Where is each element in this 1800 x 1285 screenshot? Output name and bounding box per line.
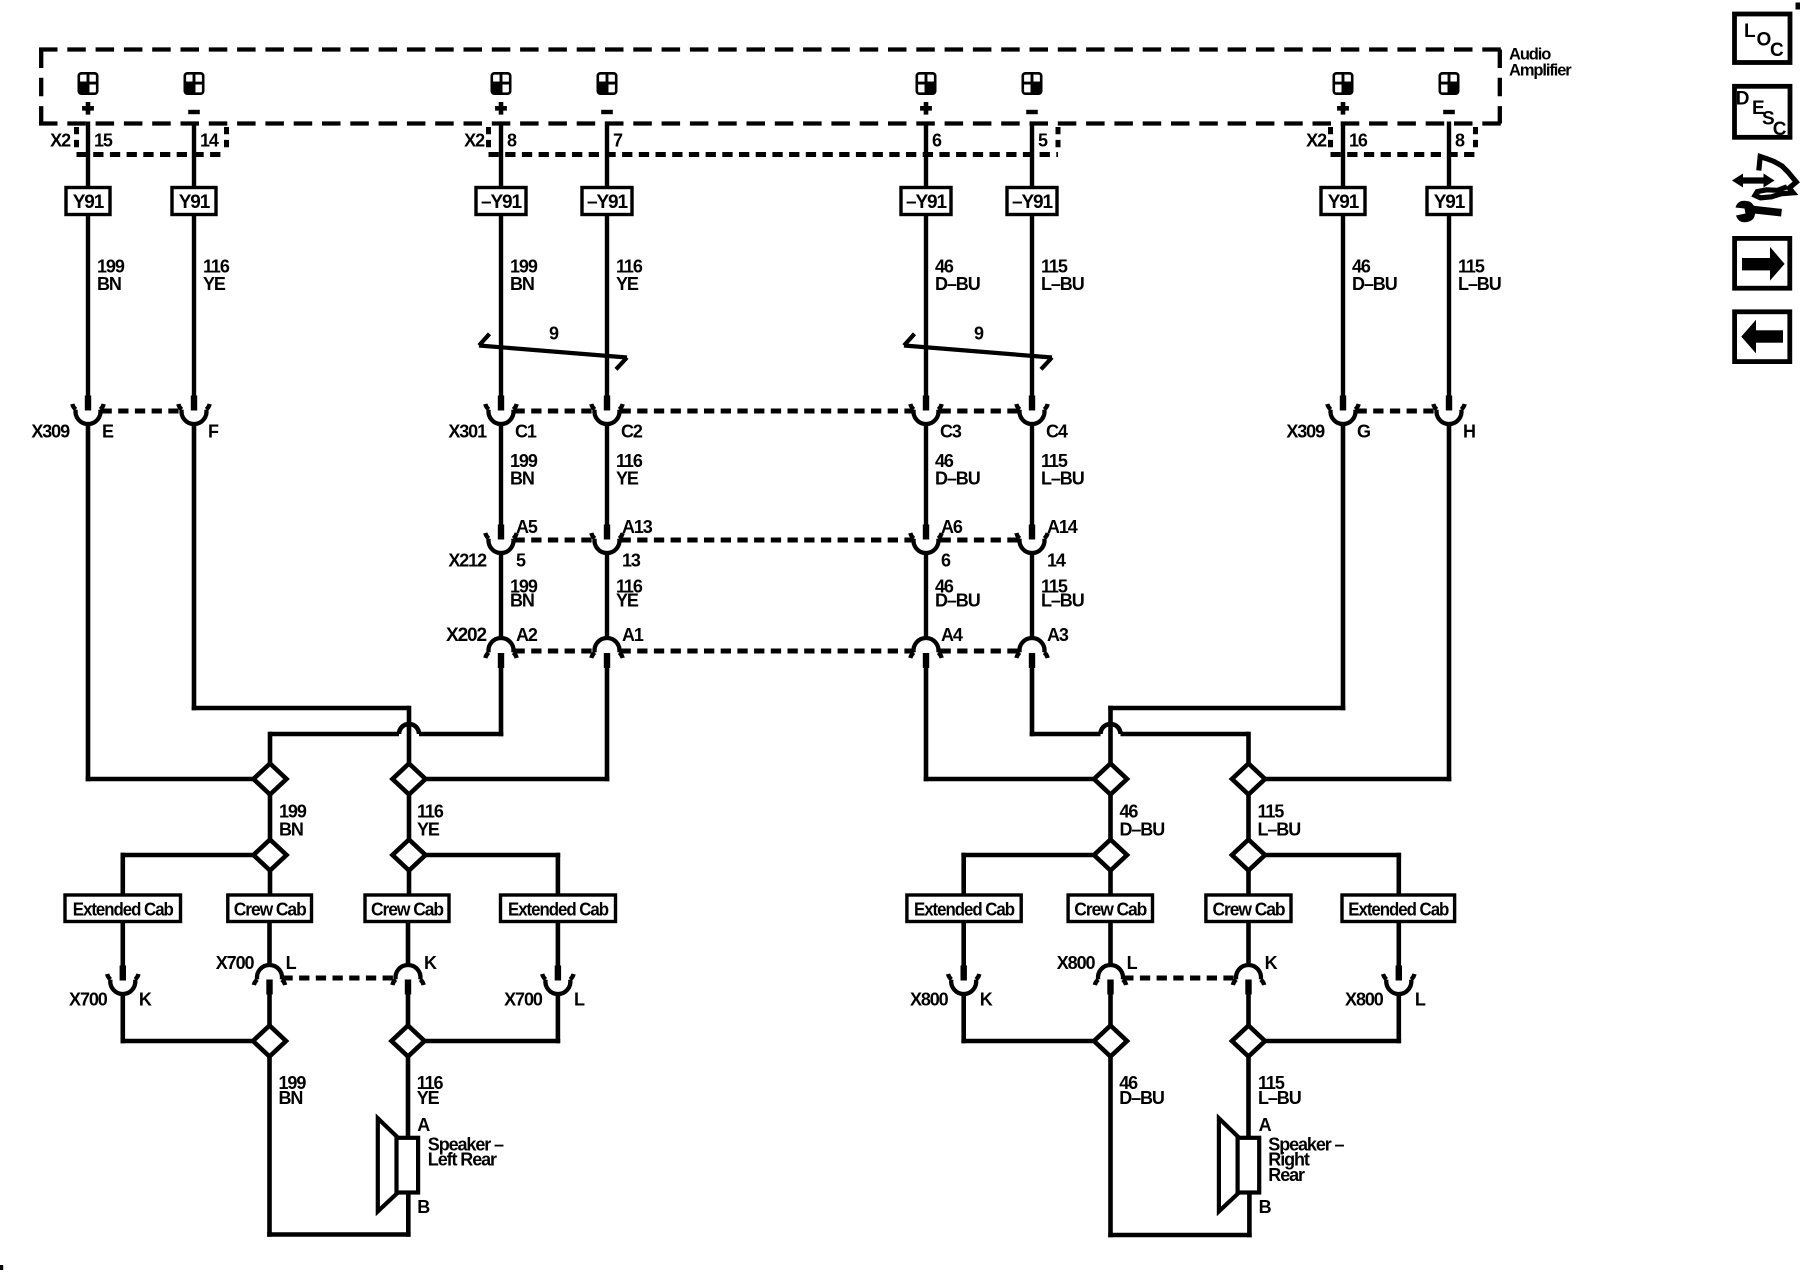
svg-text:46: 46 (1120, 802, 1139, 822)
svg-text:C4: C4 (1046, 422, 1068, 442)
icon double arrow with wrench (1732, 157, 1796, 223)
connector X800 K mid (1233, 965, 1264, 994)
connector X212 dashes (515, 538, 1019, 543)
svg-text:A1: A1 (622, 625, 644, 645)
connector X800 L right (1383, 966, 1414, 994)
label Speaker - Right Rear (1268, 1135, 1344, 1186)
svg-text:L–BU: L–BU (1258, 1088, 1301, 1108)
wire col3 amp to splice pack (499, 122, 503, 190)
wire label 46 D–BU col7 (1352, 257, 1397, 295)
label X800 L mid (1057, 953, 1138, 973)
connector X2 pin box (pins 15,14) (77, 127, 227, 155)
wire label 46 D–BU col5 (935, 257, 980, 295)
svg-text:C: C (1770, 40, 1784, 61)
svg-text:B: B (1259, 1197, 1272, 1217)
svg-text:14: 14 (1047, 551, 1066, 571)
svg-text:Extended Cab: Extended Cab (73, 899, 174, 919)
svg-text:116: 116 (417, 802, 444, 822)
wire S3 to Crew Cab L1 (268, 871, 273, 897)
label Speaker - Left Rear (428, 1135, 504, 1170)
crossover hop left (399, 724, 419, 734)
splice pack Y91 col2 (172, 188, 216, 215)
wire X800 K mid to splice S12 (1246, 994, 1251, 1028)
svg-text:X2: X2 (50, 131, 71, 151)
svg-text:BN: BN (510, 274, 534, 294)
splice S7 (46 D-BU) (1094, 764, 1127, 795)
connector X301 dashes (515, 409, 1019, 414)
wire G run (1108, 423, 1345, 765)
icon box LOC (1735, 14, 1791, 63)
svg-text:Crew Cab: Crew Cab (234, 899, 307, 919)
connector X700 K left (107, 966, 138, 994)
wire label 115 L–BU col6 (1041, 257, 1084, 295)
connector pin A1 X202 (591, 638, 622, 668)
svg-text:L–BU: L–BU (1041, 469, 1084, 489)
wire S12 to speaker A (1246, 1057, 1251, 1139)
svg-text:YE: YE (417, 1088, 440, 1108)
svg-text:K: K (424, 953, 437, 973)
wire label 116 YE col2 (203, 257, 230, 295)
svg-text:9: 9 (549, 324, 559, 344)
svg-text:Y91: Y91 (73, 192, 105, 213)
svg-text:YE: YE (203, 274, 226, 294)
connector pin 6 X212 (910, 525, 941, 553)
svg-text:5: 5 (516, 551, 526, 571)
svg-text:D: D (1736, 89, 1749, 110)
svg-text:K: K (1265, 953, 1278, 973)
svg-text:D–BU: D–BU (1119, 1088, 1164, 1108)
svg-text:YE: YE (616, 469, 639, 489)
speaker Right Rear (1219, 1118, 1239, 1211)
svg-text:–Y91: –Y91 (1012, 192, 1054, 213)
svg-text:X202: X202 (446, 625, 487, 646)
box Crew Cab L2 (365, 895, 449, 922)
svg-text:A3: A3 (1047, 625, 1069, 645)
svg-text:H: H (1463, 422, 1475, 442)
crossover hop right (1101, 724, 1121, 734)
box Extended Cab R2 (1342, 895, 1455, 922)
twisted pair marker 9 (left) (479, 334, 627, 370)
wire S4 to Extended Cab L2 (425, 853, 561, 897)
connector pin G row1 (1327, 396, 1358, 424)
wire col8 below splice pack (1447, 215, 1451, 398)
svg-text:D–BU: D–BU (935, 469, 980, 489)
svg-text:Y91: Y91 (179, 192, 211, 213)
svg-text:X700: X700 (504, 990, 543, 1010)
svg-text:X2: X2 (1306, 131, 1327, 151)
wire C1 to X212 (499, 423, 503, 526)
svg-text:6: 6 (941, 551, 951, 571)
svg-text:D–BU: D–BU (935, 274, 980, 294)
svg-text:–Y91: –Y91 (587, 192, 629, 213)
connector X309 left dashes (102, 409, 181, 414)
svg-text:Y91: Y91 (1328, 192, 1360, 213)
svg-text:Left Rear: Left Rear (428, 1150, 497, 1170)
wire X212 to X202 col3 (499, 552, 503, 640)
speaker Left Rear (378, 1118, 398, 1211)
wire Extended Cab L1 down (121, 922, 126, 967)
splice S4 (393, 840, 426, 871)
connector X800 L mid (1095, 965, 1126, 994)
svg-text:Extended Cab: Extended Cab (508, 899, 609, 919)
wire Crew Cab R2 down (1246, 922, 1251, 968)
polarity sign + col1 (82, 102, 94, 115)
wire col7 amp to splice pack (1341, 122, 1345, 190)
svg-text:8: 8 (1455, 131, 1465, 151)
wire col1 below splice pack (86, 215, 90, 398)
wire X212 to X202 col4 (605, 552, 609, 640)
svg-text:A5: A5 (516, 517, 538, 537)
wire X700 L mid to splice S5 (267, 994, 272, 1028)
wire label 116 YE mid1 col4 (616, 451, 643, 489)
icon box arrow right (1735, 238, 1790, 288)
svg-text:X309: X309 (1286, 422, 1325, 442)
connector pin E row1 (72, 396, 103, 424)
connector X700 K mid (392, 965, 423, 994)
svg-text:L: L (1744, 21, 1756, 42)
polarity sign - col6 (1026, 110, 1038, 114)
svg-text:13: 13 (622, 551, 641, 571)
svg-text:5: 5 (1038, 131, 1048, 151)
svg-text:7: 7 (613, 131, 623, 151)
wire S11 to speaker B (1108, 1057, 1252, 1238)
svg-text:C2: C2 (621, 422, 643, 442)
svg-text:Extended Cab: Extended Cab (1348, 899, 1449, 919)
connector pin 5 X212 (485, 525, 516, 553)
connector pin C1 row1 (485, 396, 516, 424)
svg-text:Y91: Y91 (1434, 192, 1466, 213)
wire label 46 D–BU mid1 col5 (935, 451, 980, 489)
svg-text:BN: BN (510, 591, 534, 611)
svg-text:Crew Cab: Crew Cab (1074, 899, 1147, 919)
wire X700 K mid to splice S6 (406, 994, 411, 1028)
polarity sign - col4 (601, 110, 613, 114)
svg-text:–Y91: –Y91 (481, 192, 523, 213)
svg-text:F: F (208, 422, 219, 442)
splice pack Y91 col1 (66, 188, 110, 215)
svg-text:D–BU: D–BU (935, 591, 980, 611)
svg-text:199: 199 (279, 802, 307, 822)
wire col5 amp to splice pack (924, 122, 928, 190)
svg-text:A13: A13 (622, 517, 653, 537)
wire C3 to X212 (924, 423, 928, 526)
polarity sign + col5 (920, 102, 932, 115)
splice S10 (1232, 840, 1265, 871)
label X800 L right (1345, 990, 1426, 1010)
splice pack –Y91 col3 (476, 188, 526, 215)
wire A3 run (1030, 666, 1249, 765)
svg-text:K: K (980, 990, 993, 1010)
svg-text:X2: X2 (464, 131, 485, 151)
svg-text:L: L (574, 990, 585, 1010)
svg-text:9: 9 (974, 324, 984, 344)
splice S3 (254, 840, 287, 871)
svg-text:16: 16 (1349, 131, 1368, 151)
svg-text:L: L (1127, 953, 1138, 973)
amp output pin symbol col1 (78, 73, 98, 95)
polarity sign + col7 (1337, 102, 1349, 115)
splice S6 (392, 1026, 425, 1057)
box Extended Cab L1 (65, 895, 181, 922)
Audio Amplifier dashed outline box (39, 50, 1502, 124)
box Crew Cab L1 (228, 895, 312, 922)
connector pin C2 row1 (591, 396, 622, 424)
wire C2 to X212 (605, 423, 609, 526)
svg-text:X301: X301 (448, 422, 487, 442)
connector pin A3 X202 (1016, 638, 1047, 668)
wire label 199 BN col1 (97, 257, 125, 295)
wire col4 below splice pack (605, 215, 609, 398)
splice pack –Y91 col6 (1007, 188, 1057, 215)
wire F run (192, 423, 409, 765)
connector X800 dashes (1123, 976, 1236, 981)
connector X700 L mid (254, 965, 285, 994)
wire label 116 YE speaker left (417, 1073, 444, 1108)
svg-text:A2: A2 (516, 625, 538, 645)
svg-text:A14: A14 (1047, 517, 1078, 537)
svg-text:X212: X212 (448, 551, 487, 571)
connector X309 right dashes (1357, 409, 1436, 414)
wire label 46 D-BU speaker right (1119, 1073, 1164, 1108)
wire label 199 BN trunk left (279, 802, 307, 840)
box Extended Cab R1 (907, 895, 1021, 922)
icon box arrow left (1735, 312, 1790, 362)
wire col1 amp to splice pack (86, 122, 90, 190)
svg-text:A6: A6 (941, 517, 963, 537)
wire col4 amp to splice pack (605, 122, 609, 190)
wire X800 L right to splice S12 (1264, 993, 1401, 1043)
box Crew Cab R2 (1206, 895, 1291, 922)
wire label 116 YE trunk left (417, 802, 444, 840)
splice pack Y91 col7 (1321, 188, 1365, 215)
svg-text:O: O (1757, 30, 1771, 51)
svg-text:Rear: Rear (1268, 1165, 1305, 1185)
svg-text:14: 14 (200, 131, 219, 151)
label X700 L right (504, 990, 585, 1010)
wire H run (1265, 423, 1451, 781)
svg-text:C3: C3 (940, 422, 962, 442)
wire Extended Cab R1 down (961, 922, 966, 967)
wire col5 below splice pack (924, 215, 928, 398)
amp output pin symbol col4 (597, 73, 617, 95)
polarity sign - col8 (1443, 110, 1455, 114)
svg-text:Crew Cab: Crew Cab (1213, 899, 1286, 919)
connector pin A2 X202 (485, 638, 516, 668)
wire col2 amp to splice pack (192, 122, 196, 190)
wire label 116 YE col4 (616, 257, 643, 295)
wire col7 below splice pack (1341, 215, 1345, 398)
twisted pair marker 9 (right) (904, 334, 1052, 370)
label Audio Amplifier (1509, 46, 1572, 80)
wire A4 run (924, 666, 1096, 781)
svg-text:BN: BN (279, 820, 303, 840)
connector pin C3 row1 (910, 396, 941, 424)
connector pin F row1 (178, 396, 209, 424)
wire Crew Cab L1 down (267, 922, 272, 968)
svg-text:L: L (286, 953, 297, 973)
splice pack –Y91 col4 (582, 188, 632, 215)
svg-text:Crew Cab: Crew Cab (371, 899, 444, 919)
wire col6 amp to splice pack (1030, 122, 1034, 190)
wire S9 to Extended Cab R1 (961, 853, 1094, 897)
wire X212 to X202 col5 (924, 552, 928, 640)
svg-text:115: 115 (1258, 802, 1285, 822)
svg-text:BN: BN (510, 469, 534, 489)
wire label 199 BN speaker left (279, 1073, 307, 1108)
wire Crew Cab R1 down (1108, 922, 1113, 968)
connector X2 pin box (pins 16,8) (1331, 127, 1476, 155)
wire label 199 BN mid2 col3 (510, 577, 538, 611)
svg-text:X800: X800 (1057, 953, 1096, 973)
wire label 115 L-BU speaker right (1258, 1073, 1301, 1108)
wire label 115 L–BU mid1 col6 (1041, 451, 1084, 489)
connector X2 pin box (pins 8,7,6,5) (489, 127, 1059, 155)
svg-text:X800: X800 (910, 990, 949, 1010)
polarity sign - col2 (188, 110, 200, 114)
wire label 199 BN col3 (510, 257, 538, 295)
wire X212 to X202 col6 (1030, 552, 1034, 640)
wire label 115 L–BU col8 (1458, 257, 1501, 295)
svg-text:L: L (1415, 990, 1426, 1010)
svg-text:A: A (1259, 1115, 1272, 1135)
connector X800 K left (948, 966, 979, 994)
wire S3 to Extended Cab L1 (121, 853, 254, 897)
svg-text:X700: X700 (216, 953, 255, 973)
svg-text:D–BU: D–BU (1120, 820, 1165, 840)
wire label 199 BN mid1 col3 (510, 451, 538, 489)
splice pack –Y91 col5 (901, 188, 951, 215)
wire label 46 D-BU trunk right (1120, 802, 1165, 840)
wire S10 to Extended Cab R2 (1265, 853, 1401, 897)
connector X202 dashes (515, 649, 1019, 654)
amp output pin symbol col6 (1022, 73, 1042, 95)
splice S5 (253, 1026, 286, 1057)
svg-text:L–BU: L–BU (1041, 591, 1084, 611)
connector X700 L right (542, 966, 573, 994)
connector pin C4 row1 (1016, 396, 1047, 424)
svg-text:L–BU: L–BU (1041, 274, 1084, 294)
svg-text:YE: YE (616, 591, 639, 611)
wire label 46 D–BU mid2 col5 (935, 577, 980, 611)
icon box DESC (1735, 86, 1791, 140)
svg-text:G: G (1357, 422, 1370, 442)
wire S6 to speaker A (406, 1057, 411, 1139)
svg-text:C1: C1 (515, 422, 537, 442)
svg-text:–Y91: –Y91 (906, 192, 948, 213)
amp output pin symbol col7 (1333, 73, 1353, 95)
amp output pin symbol col3 (491, 73, 511, 95)
wire S1-S3 (268, 795, 273, 840)
svg-text:B: B (417, 1197, 430, 1217)
splice pack Y91 col8 (1427, 188, 1471, 215)
svg-text:BN: BN (97, 274, 121, 294)
wire S2-S4 (407, 795, 412, 840)
svg-text:A: A (417, 1115, 430, 1135)
wire Extended Cab R2 down (1397, 922, 1402, 967)
wire label 115 L–BU mid2 col6 (1041, 577, 1084, 611)
svg-text:YE: YE (616, 274, 639, 294)
box Crew Cab R1 (1068, 895, 1152, 922)
wire A2 run (270, 666, 503, 765)
connector X700 dashes (282, 976, 395, 981)
svg-text:YE: YE (417, 820, 440, 840)
splice S12 (1232, 1026, 1265, 1057)
wire S5 to speaker B (267, 1057, 410, 1237)
wire label 116 YE mid2 col4 (616, 577, 643, 611)
splice S9 (1094, 840, 1127, 871)
splice S11 (1094, 1026, 1127, 1057)
connector pin H row1 (1433, 396, 1464, 424)
splice S2 (116 YE) (393, 764, 426, 795)
page mark top right (1796, 3, 1800, 10)
svg-text:8: 8 (507, 131, 517, 151)
wire S8-S10 (1246, 795, 1251, 840)
wire S4 to Crew Cab L2 (407, 871, 412, 897)
label X700 K left (69, 990, 152, 1010)
connector pin 14 X212 (1016, 525, 1047, 553)
svg-text:X309: X309 (31, 422, 70, 442)
svg-text:D–BU: D–BU (1352, 274, 1397, 294)
wire col6 below splice pack (1030, 215, 1034, 398)
wire S10 to Crew Cab R2 (1246, 871, 1251, 897)
amp output pin symbol col5 (916, 73, 936, 95)
svg-text:X700: X700 (69, 990, 108, 1010)
wire Extended Cab L2 down (556, 922, 561, 967)
splice S1 (199 BN) (254, 764, 287, 795)
svg-text:Amplifier: Amplifier (1509, 62, 1572, 80)
svg-text:BN: BN (279, 1088, 303, 1108)
svg-text:C: C (1773, 119, 1787, 140)
wire label 115 L-BU trunk right (1258, 802, 1301, 840)
splice S8 (115 L-BU) (1232, 764, 1265, 795)
svg-text:6: 6 (932, 131, 942, 151)
svg-text:L–BU: L–BU (1458, 274, 1501, 294)
wire col8 amp to splice pack (1447, 122, 1451, 190)
wire C4 to X212 (1030, 423, 1034, 526)
wire col2 below splice pack (192, 215, 196, 398)
wire E run (86, 423, 255, 781)
svg-text:Extended Cab: Extended Cab (914, 899, 1015, 919)
connector pin A4 X202 (910, 638, 941, 668)
amp output pin symbol col8 (1439, 73, 1459, 95)
svg-text:L–BU: L–BU (1258, 820, 1301, 840)
wire Crew Cab L2 down (406, 922, 411, 968)
amp output pin symbol col2 (184, 73, 204, 95)
wire S7-S9 (1108, 795, 1113, 840)
polarity sign + col3 (495, 102, 507, 115)
connector pin 13 X212 (591, 525, 622, 553)
wire col3 below splice pack (499, 215, 503, 398)
label X700 L mid (216, 953, 297, 973)
svg-text:E: E (102, 422, 114, 442)
wire A1 run (423, 666, 609, 781)
wire X800 K left to splice S11 (961, 993, 1096, 1043)
wire X700 K left to splice S5 (121, 993, 256, 1043)
wire X700 L right to splice S6 (423, 993, 560, 1043)
svg-text:15: 15 (94, 131, 113, 151)
wire X800 L mid to splice S11 (1108, 994, 1113, 1028)
wire S9 to Crew Cab R1 (1108, 871, 1113, 897)
svg-text:A4: A4 (941, 625, 963, 645)
page mark bottom left (0, 1265, 3, 1270)
svg-text:K: K (139, 990, 152, 1010)
svg-text:X800: X800 (1345, 990, 1384, 1010)
label X800 K left (910, 990, 993, 1010)
box Extended Cab L2 (501, 895, 616, 922)
